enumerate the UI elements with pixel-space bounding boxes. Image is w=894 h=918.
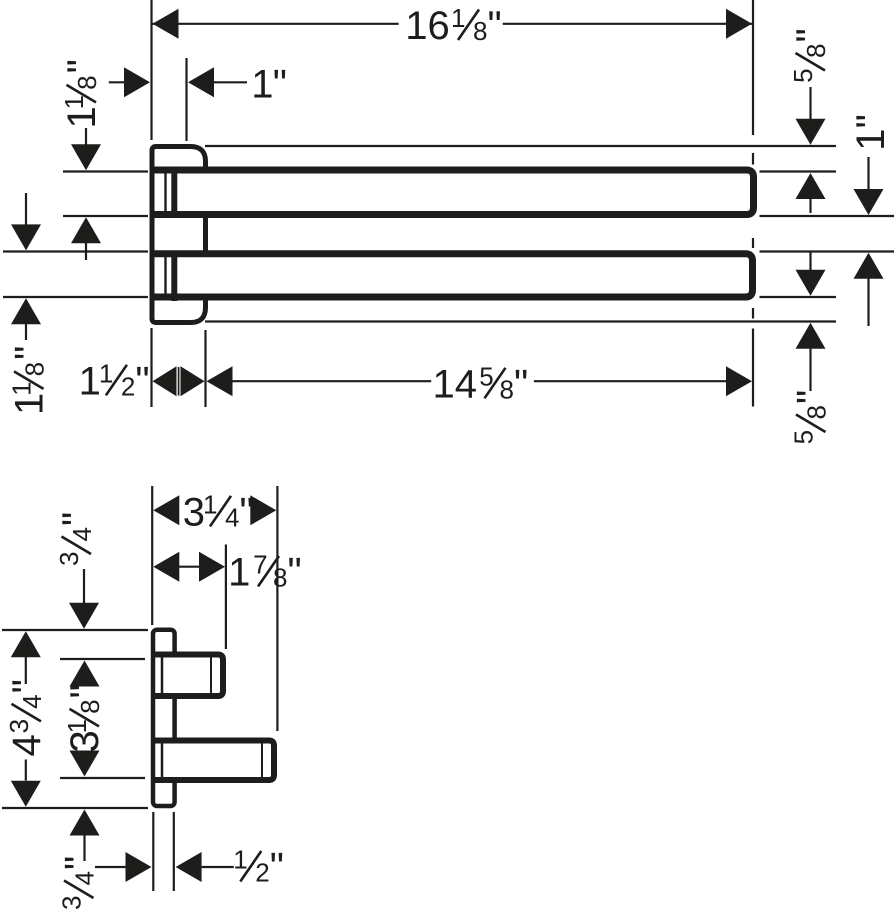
svg-text:": " [135,359,149,403]
svg-text:": " [240,490,254,534]
svg-text:": " [270,846,284,890]
dim 3 1/8 arrow down [70,751,100,777]
dim 1/2 stub left [95,866,126,868]
wall plate (side view) [153,630,175,806]
wall plate (plan view) [152,147,206,323]
svg-text:": " [849,114,893,128]
svg-text:": " [288,551,302,595]
extension line 1in vertical [185,58,187,141]
svg-text:4: 4 [67,527,97,541]
extension line bar2 top [3,250,894,252]
label 1/2 inch [233,845,284,890]
extension line bar1 top [63,170,836,172]
svg-text:1: 1 [228,551,250,595]
side ext line arm2 end [276,486,278,731]
label 3 1/8 inch (rotated) [62,684,107,752]
svg-text:8: 8 [500,374,514,404]
dim 5/8 top stub [809,87,811,121]
dim 3 1/4 right arrow [250,495,276,525]
label 14 5/8 inch [433,361,529,406]
bar 1 pivot post line [171,167,177,218]
svg-text:1: 1 [99,358,113,388]
svg-text:": " [55,512,99,526]
dim bar1 width stub bottom [85,243,87,261]
dim bar2 width stub top [25,193,27,226]
label 3/4 inch (top left, rotated) [54,512,99,566]
svg-text:8: 8 [473,16,487,46]
label 1 1/8 inch (bar2 width, rotated) [7,346,52,415]
dim 3/4 bottom stub [83,836,85,862]
extension line plate top [205,145,836,147]
svg-text:8: 8 [273,563,287,593]
dim 3/4 top arrow [69,603,99,629]
dim 1 7/8 right arrow [199,552,225,582]
label 1 1/8 inch (bar1 width, rotated) [59,59,104,128]
dim bar1 width arrow up [71,217,101,243]
side ext line arm1 top [60,658,145,660]
svg-text:1: 1 [7,381,37,395]
svg-text:4: 4 [225,502,239,532]
extension line below plate right [204,330,206,407]
side ext line plate left [151,486,153,625]
dim 3 1/8 arrow up [70,661,100,687]
svg-text:8: 8 [20,362,50,376]
svg-text:8: 8 [72,75,102,89]
svg-text:2: 2 [121,371,135,401]
svg-text:5: 5 [788,68,818,82]
label 1 inch [251,62,287,106]
side ext line arm1 end [225,545,227,650]
label 1 7/8 inch [228,550,302,595]
dimension 1in arrow right [124,67,150,97]
towel bar 1 fill [156,173,751,211]
dim 1/2 stub right [202,866,234,868]
svg-text:": " [488,4,502,48]
extension line right vertical with dashes [752,0,754,407]
dim 3/4 bottom arrow [70,810,100,836]
side ext line plate bottom [2,807,148,809]
dim 5/8 bottom arrow down [796,270,826,296]
dim 4 3/4 stub bottom [25,760,27,781]
dim bar1 width arrow down [71,144,101,170]
dimension 16 1/8 right arrow [726,9,752,39]
dim 5/8 bottom arrow up [796,323,826,349]
svg-text:1: 1 [233,845,247,875]
dim 1 1/2 diamond left [153,366,177,396]
extension line left vertical (16 1/8 ref) [150,0,152,140]
bar 1 pivot washer line [164,168,166,218]
svg-text:1: 1 [203,489,217,519]
dim 3 1/4 left arrow [153,495,179,525]
svg-text:8: 8 [801,44,831,58]
arm 1 outline [155,655,223,697]
arm 2 fill [157,743,271,777]
svg-text:1: 1 [62,719,92,733]
label 16 1/8 inch [405,3,501,48]
svg-text:1: 1 [849,128,893,150]
side ext line plate top [2,629,148,631]
dim 1 7/8 left arrow [153,552,179,582]
svg-text:3: 3 [183,490,205,534]
towel bar 2 fill [156,257,750,294]
extension line below plate left [150,328,152,407]
dimension 1in stub right [214,81,247,83]
dim 4 3/4 arrow down [11,781,41,807]
dim 14 5/8 left arrow [207,366,233,396]
svg-text:8: 8 [802,405,832,419]
svg-text:4: 4 [5,734,49,756]
arm 2 end cap line [261,743,263,778]
ext line plate depth left [152,812,154,891]
side ext line arm2 bottom [60,777,145,779]
svg-text:": " [58,856,102,870]
svg-text:8: 8 [75,699,105,713]
dim bar2 width stub bottom [25,324,27,341]
svg-text:16: 16 [405,4,450,48]
svg-text:2: 2 [255,858,269,888]
dim bar2 width arrow down [11,224,41,250]
svg-text:3: 3 [4,719,34,733]
dim 14 5/8 line [232,380,728,382]
dim 1 1/2 center line [178,367,180,396]
svg-text:": " [8,346,52,360]
svg-text:": " [789,28,833,42]
arm 2 outline [155,741,274,781]
dim 4 3/4 arrow up [11,631,41,657]
dim bar1 width stub top [85,128,87,146]
towel bar 2 outline [153,254,753,297]
bar 2 pivot washer line [164,251,166,301]
dim 1 1/2 diamond right [181,366,205,396]
ext line plate depth right [173,812,175,891]
extension line bar1 bottom [63,215,894,217]
towel bar 1 outline [153,170,754,215]
dim 3/4 top stub [83,569,85,605]
dim 14 5/8 right arrow [726,366,752,396]
dim 1in right arrow up [854,253,884,279]
label 3 1/4 inch [183,489,254,534]
svg-text:4: 4 [17,694,47,708]
dim 5/8 bottom stub [809,253,811,271]
extension line plate bottom [205,320,836,322]
label 4 3/4 inch (rotated) [4,679,49,756]
arm 1 end cap line [210,657,212,694]
dim 1in right stub 2 [867,279,869,327]
svg-text:14: 14 [433,362,478,406]
dimension 1in arrow left [188,67,214,97]
dim 5/8 top stub 2 [809,199,811,214]
svg-text:": " [790,390,834,404]
svg-text:": " [514,362,528,406]
svg-text:1: 1 [79,359,101,403]
dim 5/8 top arrow up [796,173,826,199]
dim 5/8 top arrow down [796,119,826,145]
dim bar2 width arrow up [11,298,41,324]
svg-text:5: 5 [789,430,819,444]
label 1 1/2 inch [79,358,150,403]
arm 2 left joint line [161,743,164,778]
svg-text:3: 3 [57,896,87,910]
label 3/4 inch (bottom left, rotated) [57,856,102,910]
arm 1 left joint line [161,657,164,694]
dim 5/8 bottom stub 2 [809,349,811,392]
svg-text:1: 1 [59,95,89,109]
svg-text:": " [5,679,49,693]
dim 4 3/4 stub top [25,657,27,685]
dimension 1in stub left [109,81,125,83]
extension line bar2 bottom [3,296,836,298]
dimension 16 1/8 left arrow [153,9,179,39]
svg-text:": " [63,684,107,698]
dim 1/2 arrow left [176,852,202,882]
svg-text:": " [273,62,287,106]
label 5/8 inch (top right, rotated) [788,28,833,83]
svg-text:3: 3 [54,552,84,566]
svg-text:1: 1 [251,62,273,106]
dim 1in right arrow down [854,189,884,215]
dim 1/2 arrow right [126,852,152,882]
bar 2 pivot post line [171,251,177,302]
dim 1in right stub [867,157,869,190]
svg-text:1: 1 [451,3,465,33]
arm 1 fill [157,657,220,693]
svg-text:": " [60,59,104,73]
label 1 inch (right, rotated) [849,114,893,151]
label 5/8 inch (bottom right, rotated) [789,390,834,445]
dim 1 7/8 line [179,566,200,568]
dimension 16 1/8 line [152,23,754,25]
svg-text:4: 4 [70,871,100,885]
